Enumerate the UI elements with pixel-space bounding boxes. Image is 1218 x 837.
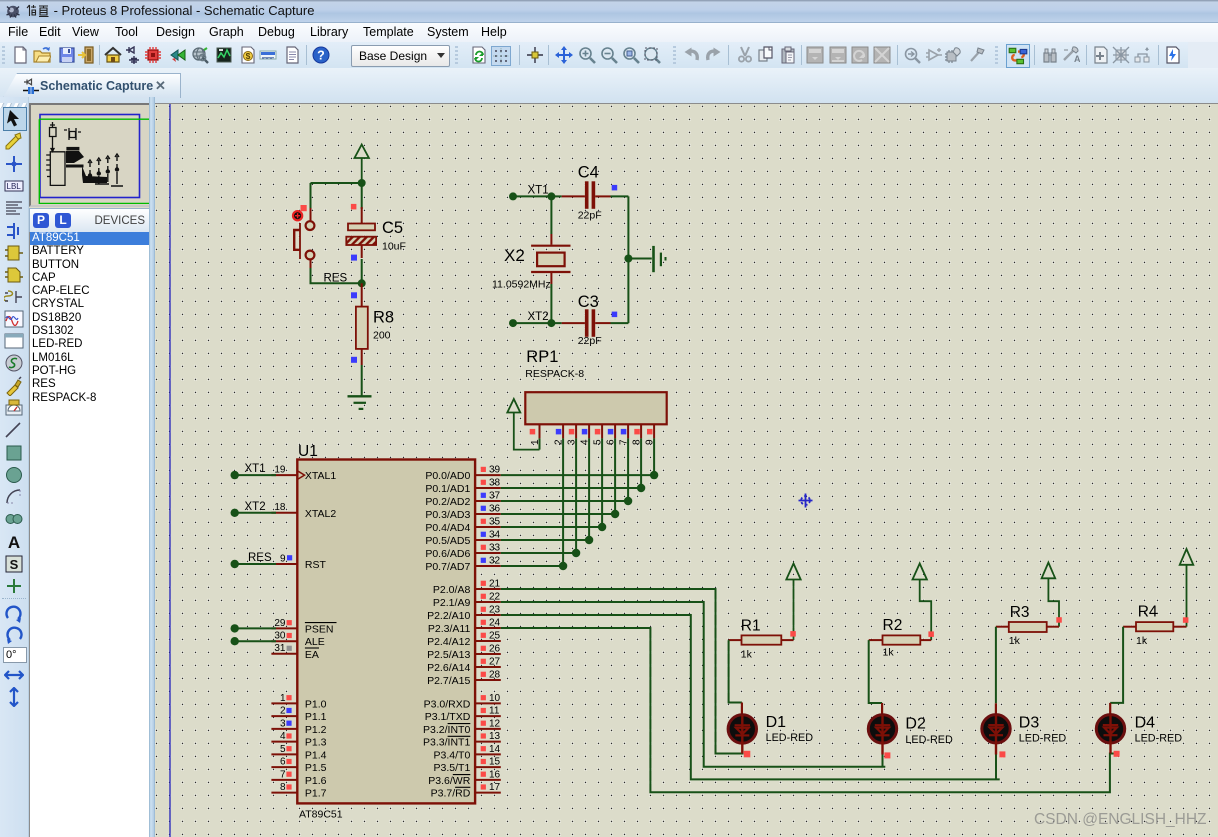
pin-end marker blue below C5 [351, 255, 357, 261]
svg-text:S: S [10, 557, 19, 572]
U1 right pin numbers [489, 465, 501, 794]
svg-text:P3.1/TXD: P3.1/TXD [425, 711, 471, 723]
LED D2 [868, 703, 896, 767]
svg-text:25: 25 [489, 630, 501, 641]
power symbol RP1 [507, 399, 539, 450]
U1 left pin numbers [274, 465, 286, 794]
svg-text:R8: R8 [373, 309, 394, 327]
svg-text:P3.6/WR: P3.6/WR [428, 775, 470, 787]
resistor R3 [996, 622, 1059, 632]
svg-text:C3: C3 [578, 293, 599, 311]
svg-text:31: 31 [274, 643, 286, 654]
svg-text:A: A [8, 533, 20, 552]
resistor R1 [729, 635, 794, 644]
RP1 pin wires to bus [563, 438, 654, 566]
svg-text:P2.6/A14: P2.6/A14 [427, 662, 470, 674]
svg-text:XT2: XT2 [528, 311, 549, 323]
RP1 pin markers [530, 429, 653, 435]
wire P2.0 to D1 [501, 589, 744, 754]
svg-text:27: 27 [489, 656, 501, 667]
svg-text:RES: RES [248, 552, 272, 564]
svg-text:P1.0: P1.0 [305, 698, 327, 710]
resistor R8 [356, 283, 368, 365]
svg-text:39: 39 [489, 465, 501, 476]
svg-text:22: 22 [489, 591, 501, 602]
svg-text:LED-RED: LED-RED [905, 734, 953, 746]
capacitor C5 [346, 207, 376, 258]
svg-text:P2.3/A11: P2.3/A11 [428, 623, 471, 635]
svg-text:A: A [1074, 54, 1080, 64]
svg-text:R4: R4 [1138, 604, 1158, 621]
svg-text:D1: D1 [766, 714, 787, 731]
svg-text:EA: EA [305, 649, 319, 661]
junction XT1 [547, 192, 555, 200]
svg-text:XT1: XT1 [528, 185, 549, 197]
svg-text:12: 12 [489, 718, 501, 729]
svg-text:2: 2 [280, 706, 286, 717]
power symbol R4 [1180, 549, 1194, 627]
svg-text:LED-RED: LED-RED [1135, 733, 1183, 745]
wire node to C5 [361, 183, 363, 209]
svg-text:28: 28 [489, 669, 501, 680]
node junction top [358, 179, 366, 187]
wire button to RES node [311, 268, 362, 283]
svg-text:CSDN @ENGLISH_HHZ: CSDN @ENGLISH_HHZ [1034, 811, 1206, 828]
pin-end marker R4 power [1183, 617, 1189, 623]
pin-end marker D2 cathode [884, 752, 890, 758]
RP1 pin 1 wire [539, 438, 541, 449]
svg-text:$: $ [246, 51, 251, 61]
svg-text:LED-RED: LED-RED [766, 732, 814, 744]
svg-text:D4: D4 [1135, 714, 1156, 731]
svg-text:P3.4/T0: P3.4/T0 [434, 749, 471, 761]
svg-text:21: 21 [489, 578, 501, 589]
U1 right pin stubs [475, 475, 501, 792]
svg-text:P1.5: P1.5 [305, 762, 327, 774]
svg-text:4: 4 [280, 731, 286, 742]
svg-text:6: 6 [280, 757, 286, 768]
junction XT2 [547, 319, 555, 327]
resistor R2 [869, 635, 932, 644]
svg-text:P0.6/AD6: P0.6/AD6 [425, 548, 470, 560]
wire to ground right [628, 258, 651, 260]
svg-text:P3.2/INT0: P3.2/INT0 [423, 724, 470, 736]
wire down to button [310, 183, 312, 208]
junction dots bus [559, 471, 658, 570]
svg-text:P0.7/AD7: P0.7/AD7 [425, 561, 470, 573]
svg-text:P2.7/A15: P2.7/A15 [427, 675, 470, 687]
pin-end marker D1 cathode [744, 751, 751, 758]
U1 right pin names [423, 470, 471, 799]
svg-text:RP1: RP1 [526, 348, 558, 366]
svg-text:34: 34 [489, 529, 501, 540]
power symbol R2 [913, 564, 932, 641]
svg-text:15: 15 [489, 757, 501, 768]
svg-text:LBL: LBL [7, 182, 22, 191]
power symbol R3 [1042, 563, 1059, 627]
pin-end marker button [301, 205, 307, 211]
svg-text:P1.3: P1.3 [305, 737, 327, 749]
svg-text:13: 13 [489, 731, 501, 742]
pin-end marker D3 cathode [999, 751, 1005, 757]
svg-text:P0.1/AD1: P0.1/AD1 [425, 483, 470, 495]
svg-text:17: 17 [489, 782, 501, 793]
P0 bus wires [501, 475, 654, 566]
pin-end marker blue C3 [612, 312, 618, 318]
svg-text:22pF: 22pF [578, 335, 602, 347]
svg-text:9: 9 [280, 553, 286, 564]
U1 left wire end dots [231, 471, 239, 646]
U1 XTAL1 clock notch [297, 471, 304, 480]
svg-text:18: 18 [274, 502, 286, 513]
wire R1 to D1 [729, 640, 742, 702]
svg-text:11.0592MHz: 11.0592MHz [492, 279, 551, 291]
svg-text:P2.0/A8: P2.0/A8 [433, 584, 471, 596]
wire crystal bottom [550, 284, 552, 323]
svg-text:R2: R2 [883, 617, 903, 634]
wire R8 to ground [361, 365, 363, 396]
crystal X2 [531, 234, 570, 284]
svg-text:XT1: XT1 [245, 463, 266, 475]
pin-end marker D4 cathode [1114, 751, 1120, 757]
svg-text:P1.1: P1.1 [305, 711, 327, 723]
U1 left pin markers [286, 555, 292, 789]
svg-text:P1.4: P1.4 [305, 749, 327, 761]
svg-text:D2: D2 [905, 716, 926, 733]
svg-text:33: 33 [489, 542, 501, 553]
svg-text:3: 3 [280, 718, 286, 729]
pin-end marker C5 [351, 204, 357, 210]
node XT1 dot [509, 192, 517, 200]
svg-text:11: 11 [489, 706, 500, 717]
pin-end marker blue C4 [612, 185, 618, 191]
ground [348, 396, 372, 409]
svg-text:200: 200 [373, 330, 391, 342]
wire XT2 [513, 322, 562, 324]
RP1 pin numbers [530, 439, 656, 445]
svg-text:RST: RST [305, 559, 327, 571]
svg-text:C4: C4 [578, 164, 599, 182]
svg-text:23: 23 [489, 604, 501, 615]
svg-text:XTAL1: XTAL1 [305, 470, 336, 482]
svg-text:8: 8 [280, 782, 286, 793]
svg-text:P2.5/A13: P2.5/A13 [427, 649, 470, 661]
svg-text:P3.7/RD: P3.7/RD [431, 788, 471, 800]
svg-text:P2.4/A12: P2.4/A12 [427, 636, 470, 648]
svg-text:16: 16 [489, 769, 501, 780]
node XT2 dot [509, 319, 517, 327]
svg-text:24: 24 [489, 617, 501, 628]
svg-text:X2: X2 [504, 246, 525, 265]
svg-text:U1: U1 [298, 443, 318, 460]
svg-text:36: 36 [489, 503, 501, 514]
RP1 pin stubs [540, 424, 655, 438]
svg-text:10uF: 10uF [382, 241, 406, 253]
INT0 INT1 WR RD overlines [448, 724, 471, 788]
svg-text:XTAL2: XTAL2 [305, 508, 336, 520]
svg-text:35: 35 [489, 516, 501, 527]
pin-end marker blue below R8 [351, 357, 357, 363]
wire crystal top [550, 196, 552, 234]
node junction RES [358, 279, 366, 287]
sheet border [169, 104, 171, 837]
power symbol R1 [786, 564, 800, 641]
svg-text:30: 30 [274, 631, 286, 642]
wire P2.1 to D2 [501, 602, 886, 767]
wire junction to button [311, 182, 362, 184]
svg-text:LED-RED: LED-RED [1019, 733, 1067, 745]
wire R2 to D2 [869, 640, 882, 703]
svg-text:D3: D3 [1019, 714, 1040, 731]
svg-text:5: 5 [280, 744, 286, 755]
svg-text:P2.1/A9: P2.1/A9 [433, 597, 471, 609]
pin-end marker R1 power [790, 631, 796, 637]
svg-text:26: 26 [489, 643, 501, 654]
U1 right pin markers [481, 467, 486, 790]
svg-text:P1.7: P1.7 [305, 788, 327, 800]
svg-text:37: 37 [489, 490, 501, 501]
svg-text:10: 10 [489, 693, 501, 704]
svg-text:1k: 1k [1136, 635, 1148, 647]
svg-text:XT2: XT2 [245, 501, 266, 513]
U1 left wires [235, 475, 276, 641]
capacitor C4 [562, 181, 611, 209]
svg-text:1k: 1k [1009, 635, 1021, 647]
svg-text:R3: R3 [1010, 604, 1030, 621]
svg-text:22pF: 22pF [578, 209, 602, 221]
pin-end marker blue above R8 [351, 292, 357, 298]
mouse crosshair [799, 494, 813, 508]
svg-text:ALE: ALE [305, 636, 325, 648]
pin-end marker R3 power [1056, 617, 1062, 623]
svg-text:7: 7 [280, 769, 286, 780]
wire right rail [627, 196, 629, 323]
button S1 [293, 208, 314, 268]
svg-text:38: 38 [489, 477, 501, 488]
svg-text:P0.4/AD4: P0.4/AD4 [425, 522, 470, 534]
LED D3 [982, 703, 1010, 779]
svg-text:P1.2: P1.2 [305, 724, 327, 736]
svg-text:P2.2/A10: P2.2/A10 [427, 610, 470, 622]
ground rotated [654, 246, 666, 272]
wire R3 to D3 [995, 627, 997, 704]
svg-text:R1: R1 [741, 618, 761, 635]
svg-text:1k: 1k [741, 649, 753, 661]
svg-text:1: 1 [280, 693, 286, 704]
wire C5 to node [361, 259, 363, 283]
svg-text:32: 32 [489, 555, 501, 566]
svg-text:P0.3/AD3: P0.3/AD3 [425, 509, 470, 521]
svg-text:1k: 1k [883, 647, 895, 659]
LED D1 [728, 703, 756, 754]
svg-text:14: 14 [489, 744, 501, 755]
svg-text:P0.5/AD5: P0.5/AD5 [425, 535, 470, 547]
svg-text:C5: C5 [382, 219, 403, 237]
wire C4 to right rail [611, 195, 629, 197]
svg-text:RESPACK-8: RESPACK-8 [525, 368, 584, 380]
wire P2.2 to D3 [501, 615, 1000, 779]
LED D4 [1096, 703, 1124, 754]
svg-text:19: 19 [274, 465, 286, 476]
wire C3 to rail [611, 322, 629, 324]
pin-end marker R2 power [928, 631, 934, 637]
svg-text:P3.5/T1: P3.5/T1 [434, 762, 471, 774]
junction rail [624, 255, 632, 263]
svg-text:AT89C51: AT89C51 [299, 809, 343, 821]
U1 left pin stubs [271, 475, 297, 792]
power symbol VCC top-left [355, 145, 369, 184]
PSEN EA overlines [305, 622, 337, 624]
svg-text:PSEN: PSEN [305, 623, 334, 635]
wire XT1 [513, 195, 562, 197]
svg-text:P0.2/AD2: P0.2/AD2 [425, 496, 470, 508]
U1 left pin names [305, 470, 336, 799]
svg-text:P1.6: P1.6 [305, 775, 327, 787]
svg-text:P3.0/RXD: P3.0/RXD [424, 698, 471, 710]
svg-text:P3.3/INT1: P3.3/INT1 [423, 737, 470, 749]
wire R4 to D4 [1110, 627, 1123, 703]
capacitor C3 [562, 309, 611, 337]
svg-text:?: ? [317, 49, 325, 63]
svg-text:RES: RES [324, 273, 348, 285]
wire P2.3 to D4 [501, 628, 1114, 792]
svg-text:29: 29 [274, 618, 286, 629]
resistor R4 [1123, 622, 1186, 631]
svg-text:P0.0/AD0: P0.0/AD0 [425, 470, 470, 482]
